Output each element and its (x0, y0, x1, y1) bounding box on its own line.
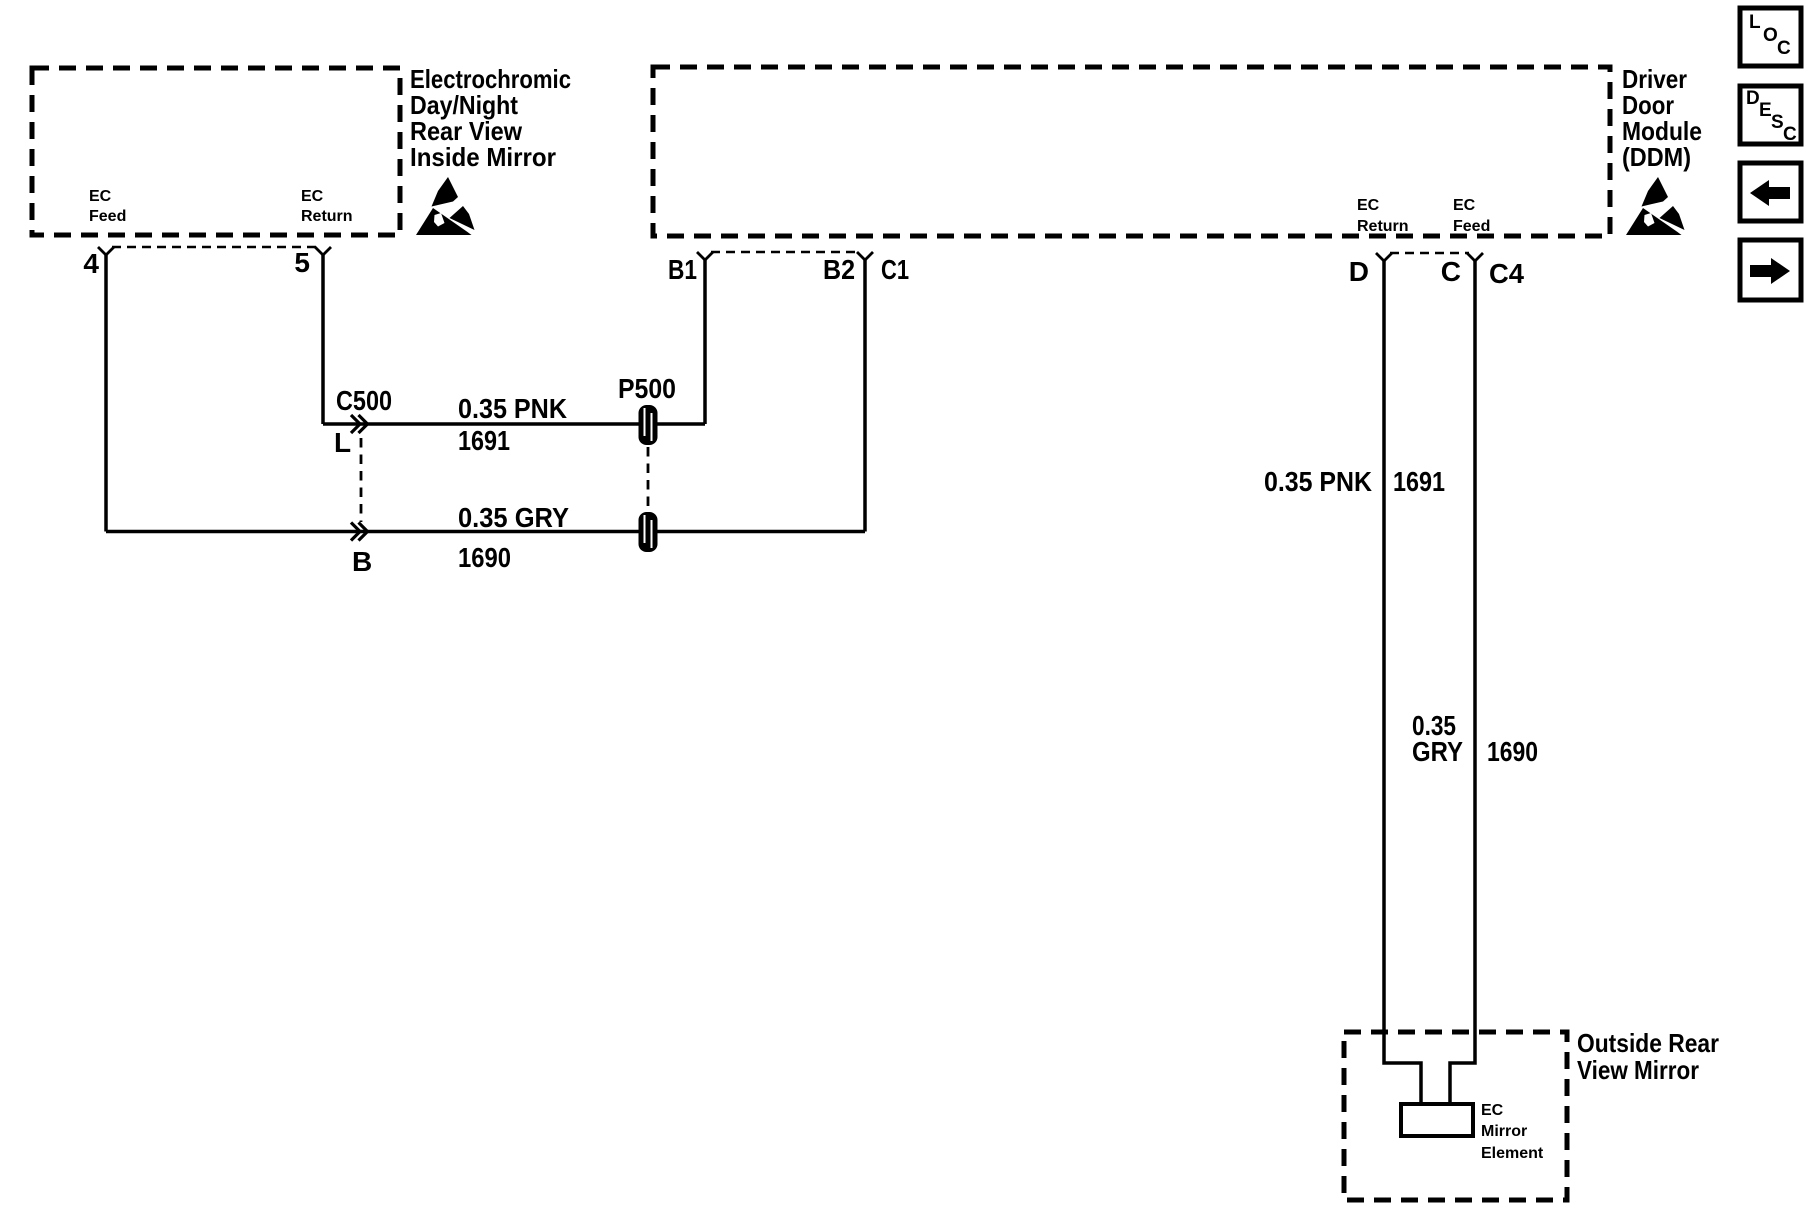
label: Outside Rear View Mirror (1577, 1028, 1719, 1085)
svg-text:S: S (1771, 112, 1784, 133)
svg-text:C500: C500 (336, 385, 392, 416)
box: Outside Rear View Mirror (dashed) (1344, 1032, 1567, 1200)
label: EC Feed (inside mirror) (89, 188, 126, 225)
pin B2 (857, 252, 873, 260)
svg-text:EC: EC (89, 188, 112, 205)
svg-text:B: B (352, 546, 372, 577)
svg-text:1691: 1691 (458, 425, 510, 456)
splice P500 on GRY wire (639, 512, 658, 552)
pin 5 (315, 247, 331, 255)
svg-text:B1: B1 (668, 254, 697, 285)
svg-text:Mirror: Mirror (1481, 1123, 1527, 1140)
dashed link P500 (647, 447, 650, 513)
icon box left arrow (1740, 163, 1801, 221)
splice P500 on PNK wire (639, 405, 658, 445)
label: EC Mirror Element (1481, 1102, 1544, 1162)
svg-text:(DDM): (DDM) (1622, 142, 1691, 172)
wire: B2 stem (863, 260, 867, 532)
svg-text:B2: B2 (823, 254, 855, 285)
svg-text:C: C (1441, 256, 1461, 287)
svg-text:Feed: Feed (89, 208, 126, 225)
svg-text:L: L (1749, 12, 1761, 33)
svg-text:View Mirror: View Mirror (1577, 1055, 1699, 1085)
EC mirror element box (1401, 1104, 1473, 1136)
svg-text:Element: Element (1481, 1145, 1544, 1162)
label: 0.35 GRY (right) (1412, 710, 1463, 767)
pin 4 (98, 247, 114, 255)
svg-text:EC: EC (1481, 1102, 1504, 1119)
svg-text:Outside Rear: Outside Rear (1577, 1028, 1719, 1058)
wire: B1 stem (703, 260, 707, 424)
connector face line pins D-C (1390, 252, 1469, 254)
svg-text:D: D (1746, 88, 1760, 109)
svg-text:0.35 PNK: 0.35 PNK (1264, 466, 1372, 497)
svg-text:1690: 1690 (1487, 736, 1538, 767)
wire: 0.35 GRY 1690 horizontal (106, 530, 865, 534)
wire: pin 5 down to PNK wire (321, 255, 325, 424)
svg-text:C4: C4 (1489, 258, 1524, 289)
svg-text:5: 5 (294, 247, 310, 278)
svg-text:Inside Mirror: Inside Mirror (410, 142, 556, 172)
wire: pin 4 down to GRY wire (104, 255, 108, 532)
svg-text:4: 4 (83, 248, 99, 279)
svg-text:1691: 1691 (1393, 466, 1445, 497)
svg-text:P500: P500 (618, 373, 676, 404)
box: Electrochromic Inside Mirror (dashed) (32, 68, 400, 235)
svg-text:E: E (1759, 100, 1772, 121)
svg-text:C1: C1 (881, 254, 909, 285)
ESD symbol (inside mirror) (416, 177, 475, 235)
svg-text:EC: EC (301, 188, 324, 205)
label: Electrochromic Day/Night Rear View Inside Mirror (410, 64, 571, 172)
svg-text:Return: Return (1357, 218, 1409, 235)
label: EC Feed (DDM) (1453, 197, 1490, 235)
svg-text:1690: 1690 (458, 542, 511, 573)
svg-text:Feed: Feed (1453, 218, 1490, 235)
icon box DESC (1740, 86, 1801, 145)
svg-text:L: L (334, 427, 351, 458)
pin D (1376, 253, 1392, 261)
wire: D stem down to outside mirror (1384, 261, 1421, 1106)
svg-text:0.35 PNK: 0.35 PNK (458, 393, 567, 424)
label: EC Return (DDM) (1357, 197, 1409, 235)
pin B1 (697, 252, 713, 260)
svg-text:C: C (1783, 124, 1797, 145)
svg-text:0.35 GRY: 0.35 GRY (458, 502, 569, 533)
svg-text:O: O (1763, 25, 1778, 46)
icon box right arrow (1740, 240, 1801, 300)
box: Driver Door Module (dashed) (653, 67, 1610, 236)
connector face line pins 4-5 (112, 246, 317, 248)
label: EC Return (inside mirror) (301, 188, 353, 225)
svg-text:D: D (1349, 256, 1369, 287)
ESD symbol (DDM) (1626, 177, 1685, 235)
wire: 0.35 PNK 1691 horizontal (323, 422, 705, 426)
svg-text:EC: EC (1453, 197, 1476, 214)
connector C500 chevrons on GRY wire (351, 523, 368, 541)
wire: C stem down to outside mirror (1450, 261, 1475, 1106)
svg-text:Return: Return (301, 208, 353, 225)
connector face line pins B1-B2 (711, 251, 859, 253)
connector C500 chevrons on PNK wire (351, 415, 368, 433)
dashed link C500 L-B (360, 438, 363, 522)
svg-text:GRY: GRY (1412, 736, 1463, 767)
pin C (1467, 253, 1483, 261)
icon box LOC (1740, 8, 1801, 66)
label: Driver Door Module (DDM) (1622, 64, 1702, 172)
svg-text:C: C (1777, 38, 1791, 59)
svg-text:EC: EC (1357, 197, 1380, 214)
